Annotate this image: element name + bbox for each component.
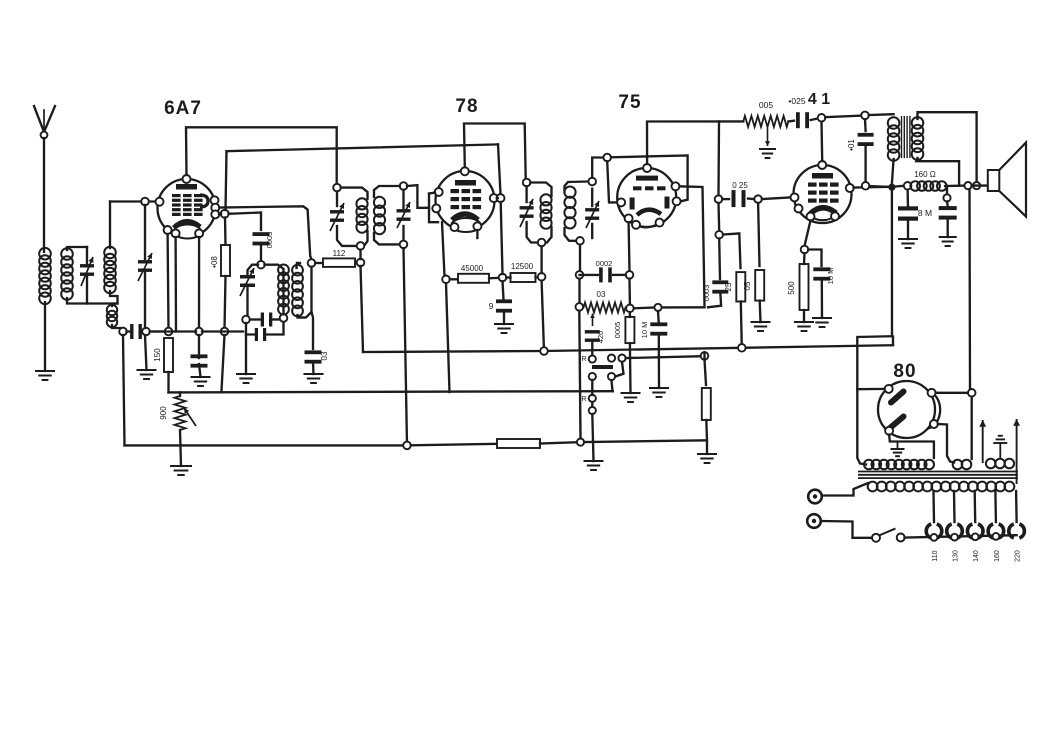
capacitor 9 screen bypass xyxy=(496,299,512,303)
wire tap bus xyxy=(905,535,1017,537)
bus A screen-AVC xyxy=(363,345,893,352)
black dot plate node xyxy=(888,184,895,191)
wire divider to cap9 xyxy=(503,281,504,299)
node switch P3 xyxy=(608,373,615,380)
svg-text:12500: 12500 xyxy=(511,262,534,271)
svg-text:0003: 0003 xyxy=(265,232,274,249)
pin 75 top-cap xyxy=(643,164,651,172)
wire to OPT primary xyxy=(869,113,894,116)
wire switch elbow xyxy=(615,362,623,377)
wire 01 top lead xyxy=(864,119,867,131)
coil L7 IF1 secondary xyxy=(374,197,385,208)
wire osc junction down to AVC bus xyxy=(221,335,224,392)
wire cath junction right xyxy=(808,250,821,267)
pin 6A7 heater1 xyxy=(172,229,180,237)
coil L10 OPT primary xyxy=(888,117,900,129)
resistor -08 osc anode xyxy=(221,245,230,276)
node IF2 secondary bottom xyxy=(576,237,584,245)
wire OPT sec bottom xyxy=(916,158,959,186)
wire 0005 to ground xyxy=(629,343,632,393)
pin 75 diode1 xyxy=(625,214,633,222)
svg-text:0003: 0003 xyxy=(702,285,711,302)
wire 41 cathode drop xyxy=(805,221,811,247)
node IF2 secondary top xyxy=(588,178,596,186)
wire 900 to ground xyxy=(180,430,181,466)
node IF1 primary top xyxy=(333,184,341,192)
svg-text:05: 05 xyxy=(743,281,752,290)
node speaker join 2 xyxy=(973,182,980,189)
terminal mains 1 xyxy=(808,490,822,504)
wire pickup bottom to cap xyxy=(312,312,314,349)
coil L4 oscillator xyxy=(278,265,289,276)
node ant-osc junction xyxy=(119,328,127,336)
ground antenna xyxy=(35,370,55,372)
wire osc tank box xyxy=(248,265,259,276)
resistor 112 coupling xyxy=(323,258,355,267)
bus C ground return xyxy=(125,444,405,446)
coil L12 field 1600 xyxy=(910,181,920,191)
wire trimmer2 down to ground xyxy=(144,271,146,328)
heater arc 41 xyxy=(811,216,836,220)
wire 25 to bus A xyxy=(741,302,742,348)
coil L11 OPT secondary xyxy=(912,117,924,129)
bus C right3 xyxy=(584,440,707,442)
node IF1 secondary top xyxy=(400,182,408,190)
wire IF1 sec to 78 grid xyxy=(407,185,429,208)
tube 75 envelope xyxy=(617,168,676,227)
node 0003 junction xyxy=(715,231,723,239)
wire 6A7 osc anode to pickup xyxy=(220,206,312,259)
ground heater ct xyxy=(999,443,1001,458)
capacitor osc tracking xyxy=(255,328,258,341)
tube 78 internals xyxy=(455,180,476,186)
wire 05 top lead xyxy=(758,203,759,266)
pin 6A7 top-cap xyxy=(183,175,191,183)
wire IF1 secondary box xyxy=(374,186,400,197)
pin 78 cath1 xyxy=(451,223,459,231)
node speaker join 1 xyxy=(964,182,971,189)
wire R stack xyxy=(591,380,593,395)
svg-text:R: R xyxy=(581,356,586,363)
tube 80 lens xyxy=(928,391,940,429)
tube 6A7 envelope xyxy=(158,179,216,237)
svg-text:9: 9 xyxy=(489,301,494,311)
wire 10M bottom lead xyxy=(199,364,201,377)
node switch R1 xyxy=(589,355,596,362)
node bus A x705 xyxy=(701,352,709,360)
svg-text:130: 130 xyxy=(953,550,960,562)
svg-text:4 1: 4 1 xyxy=(808,91,830,108)
wire wiper cap to switch xyxy=(591,341,593,355)
capacitor 10M detector xyxy=(650,322,667,326)
wire pickup to ground xyxy=(592,414,593,461)
wire det cap left lead xyxy=(580,274,599,276)
wire screen dropper vert xyxy=(498,144,501,194)
wire bus A end jog xyxy=(892,337,894,345)
tap selector 130 xyxy=(947,524,952,538)
arrow trimmer grid xyxy=(138,253,152,281)
capacitor 0003 osc grid xyxy=(253,232,270,236)
antenna xyxy=(34,106,44,132)
resistor 500 cathode xyxy=(800,264,809,310)
arrow heater lead 1 xyxy=(982,420,984,463)
ground 8M xyxy=(898,238,918,240)
wire grid bus right xyxy=(611,155,688,201)
coil L5 osc pickup xyxy=(292,265,303,276)
wire joins to speaker xyxy=(972,184,989,186)
node osc junction xyxy=(221,328,229,336)
wire 900 top lead xyxy=(179,392,181,396)
svg-text:112: 112 xyxy=(333,249,346,258)
pin 6A7 cathode xyxy=(164,226,172,234)
resistor 05 grid 41 xyxy=(755,270,764,301)
wire cathode row a xyxy=(152,330,196,332)
wire OPT sec top loop xyxy=(918,112,977,182)
arrow trimmer IF1 pri xyxy=(330,203,344,231)
wire plate pin link xyxy=(496,197,499,199)
wire 8M top lead xyxy=(906,190,909,207)
resistor 900 bias xyxy=(175,396,186,430)
node IF1 secondary bottom xyxy=(400,241,408,249)
wire grid drop to 75 xyxy=(607,161,617,202)
ground 0005 xyxy=(621,392,641,394)
ground 03 xyxy=(304,373,324,375)
node IF1 primary bottom xyxy=(357,242,365,250)
svg-text:220: 220 xyxy=(1015,550,1022,562)
wire cap9 to ground xyxy=(503,311,505,324)
coil L9 IF2 secondary xyxy=(564,187,575,198)
arrow hum tap xyxy=(767,128,769,146)
bus B AVC xyxy=(169,391,613,392)
svg-text:140: 140 xyxy=(973,550,980,562)
tube 41 internals xyxy=(812,173,833,179)
wire IF2 primary box xyxy=(525,186,527,202)
wire coupling vert lower xyxy=(717,203,720,231)
node volume top left xyxy=(576,303,584,311)
wire junction to cathode row xyxy=(150,330,166,332)
wire heater2 drop xyxy=(198,237,200,329)
trimmer capacitor IF2 pri xyxy=(520,206,534,209)
node coupling left xyxy=(715,195,723,203)
wire osc tank ground lead xyxy=(245,335,247,375)
coil L8 IF2 primary xyxy=(540,194,551,205)
ground filter2 xyxy=(939,236,957,238)
wire 10M41 to ground xyxy=(821,279,824,318)
wire junction down to bus xyxy=(123,335,125,445)
wire 0005 top lead xyxy=(629,312,631,317)
tap selector 160 xyxy=(988,524,993,538)
node osc coil bottom xyxy=(280,314,288,322)
trimmer capacitor IF1 pri xyxy=(330,210,344,213)
wire 0003b top lead xyxy=(718,239,721,280)
wire padder to coil xyxy=(272,318,284,320)
resistor 25 grid leak xyxy=(736,272,745,301)
wire cathode row b xyxy=(202,330,243,332)
resistor 005 hum xyxy=(743,116,788,127)
wire P3 to AVC bus xyxy=(612,380,613,391)
ground plate load xyxy=(697,453,717,455)
coil L6 IF1 primary xyxy=(356,198,367,209)
trimmer capacitor first detector grid xyxy=(138,260,152,263)
wire det junction drop xyxy=(578,279,580,303)
speaker xyxy=(988,170,1000,191)
wire IF2 pri bottom drop xyxy=(540,246,542,273)
trimmer capacitor oscillator xyxy=(240,275,255,279)
switch mains xyxy=(872,534,880,542)
capacitor 01 tone xyxy=(858,133,874,137)
capacitor 10M 41 bypass xyxy=(813,267,830,271)
ground 05 xyxy=(751,321,771,323)
wire 03 to ground xyxy=(312,362,315,374)
coil L3 secondary xyxy=(104,247,116,259)
svg-text:900: 900 xyxy=(159,406,168,420)
wire cap left lead xyxy=(127,330,131,332)
wire 41 top junction right xyxy=(825,116,861,118)
wire 78 top cap to IF2 xyxy=(464,124,526,180)
wire join1 down xyxy=(968,189,971,389)
capacitor 10M cathode bypass xyxy=(191,354,208,358)
wire 80 plate2 path xyxy=(889,435,934,458)
wire 10M det top lead xyxy=(657,311,660,324)
wire antenna coil to ground xyxy=(44,302,46,371)
ground 10M41 xyxy=(812,317,832,319)
node pickup R2b xyxy=(589,407,596,414)
wire osc grid to cap xyxy=(229,213,262,231)
wire 45000 right lead xyxy=(489,277,499,280)
node IF2 primary top xyxy=(523,179,531,187)
coil L1 antenna xyxy=(39,248,51,260)
svg-text:R: R xyxy=(581,396,586,403)
pin 75 heater1 xyxy=(632,221,640,229)
pin 41 grid-left xyxy=(791,193,799,201)
capacitor 03 osc bypass xyxy=(305,350,322,354)
node osc tank bl xyxy=(242,316,250,324)
arrow trimmer IF1 sec xyxy=(397,202,410,228)
heater arc 75 xyxy=(636,223,660,228)
capacitor 0003 af xyxy=(712,280,728,284)
svg-text:0005: 0005 xyxy=(613,322,622,339)
wire OPT core xyxy=(901,116,903,158)
wire det cap right lead xyxy=(613,274,626,276)
arrow trimmer antenna xyxy=(81,257,93,286)
wire 500 to ground xyxy=(803,310,805,322)
wire antenna lead xyxy=(43,138,45,252)
wire tap 220 lead xyxy=(1015,491,1018,522)
pin 78 top-cap xyxy=(461,167,469,175)
wire volume left long drop xyxy=(579,311,580,439)
wire filter2 bottom lead xyxy=(947,219,949,237)
wire IF2 secondary box xyxy=(565,182,593,193)
coil L16 mains primary xyxy=(868,482,878,492)
svg-text:03: 03 xyxy=(320,351,329,360)
wire 150 to AVC bus xyxy=(167,372,169,392)
node 01 bottom xyxy=(862,182,870,190)
wire 75 plate resistor vert xyxy=(705,360,707,386)
svg-text:8 M: 8 M xyxy=(918,208,932,218)
node 10M top xyxy=(654,304,661,311)
wire 0003 to tank top xyxy=(260,244,262,261)
svg-text:005: 005 xyxy=(759,100,773,110)
coil L14 80 filament winding xyxy=(953,460,963,470)
node switch P1 xyxy=(608,355,615,362)
wire OPT primary bottom xyxy=(892,159,894,184)
wire 6A7 screen sloped xyxy=(227,144,499,151)
wire field to join xyxy=(945,184,964,187)
wire 05 to ground xyxy=(759,301,762,322)
wire 78 cath2 stub xyxy=(476,230,478,238)
wire junction to winding xyxy=(971,397,973,459)
pin 78 grid-left xyxy=(435,188,443,196)
svg-text:45000: 45000 xyxy=(461,264,484,273)
wire 005 to cap xyxy=(788,120,794,123)
wire 8M bottom lead xyxy=(907,220,909,239)
tube 41 envelope xyxy=(794,165,852,223)
ground HV ct xyxy=(897,442,899,450)
coil L2 primary xyxy=(61,248,73,260)
terminal mains 2 xyxy=(807,514,821,528)
pin 6A7 anode1 xyxy=(211,196,219,204)
wire 78 grid bracket xyxy=(429,194,438,223)
wire trimmer top lead xyxy=(86,247,88,265)
pin 41 left2 xyxy=(795,205,803,213)
wire pickup to 112 xyxy=(315,262,323,264)
wire 12500 right lead xyxy=(536,276,542,279)
svg-text:0002: 0002 xyxy=(596,259,613,268)
wire tank lower cap left xyxy=(246,323,255,335)
node pickup R2a xyxy=(589,395,596,402)
svg-text:25: 25 xyxy=(724,282,733,291)
wire cap 025 right lead xyxy=(748,197,754,200)
wire 45000 junction down to bus xyxy=(446,283,450,392)
wire tank bottom xyxy=(250,318,261,320)
ground osc tank xyxy=(236,373,256,375)
wire trimmer2 top lead xyxy=(144,205,146,259)
pin 80 fil2 xyxy=(930,420,938,428)
node 12500 right xyxy=(538,273,546,281)
trimmer capacitor IF2 sec xyxy=(585,208,599,211)
svg-text:6A7: 6A7 xyxy=(164,98,202,119)
ground trimmer2 xyxy=(137,369,157,371)
resistor bus C xyxy=(497,439,540,448)
node bus C x580 xyxy=(577,439,584,446)
wire coupling vert xyxy=(717,121,720,195)
arrow volume wiper xyxy=(592,314,594,327)
node 41 grid cap top xyxy=(818,114,826,122)
bus C right xyxy=(411,444,497,446)
wire 025 to 41 grid xyxy=(762,197,791,199)
wire osc pickup box xyxy=(301,267,312,318)
wire plate line segment xyxy=(869,185,888,188)
node volume top right xyxy=(626,305,634,313)
pin 75 heater2 xyxy=(656,219,664,227)
node cathode junction xyxy=(165,328,173,336)
svg-text:160: 160 xyxy=(994,550,1001,562)
tap selector 140 xyxy=(967,524,972,538)
wire L2 top xyxy=(67,247,87,250)
capacitor 025 coupling xyxy=(732,190,736,207)
svg-text:78: 78 xyxy=(455,96,478,117)
svg-text:03: 03 xyxy=(597,290,606,299)
wire 80 fil2 right xyxy=(938,424,954,463)
svg-text:80: 80 xyxy=(893,361,916,382)
pin 6A7 grid-osc xyxy=(211,210,219,218)
node 45000 left xyxy=(442,276,450,284)
trimmer capacitor IF1 sec xyxy=(397,209,411,212)
wire 10M top lead xyxy=(198,335,200,358)
node osc pickup top xyxy=(308,259,316,267)
svg-text:•025: •025 xyxy=(788,96,805,106)
wire R2 stub xyxy=(591,402,593,407)
svg-text:10 M: 10 M xyxy=(826,268,835,285)
wire 80 fil1 right xyxy=(936,392,968,394)
arrow heater lead 2 xyxy=(1016,419,1018,484)
tube 75 internals xyxy=(636,176,658,181)
wire 41 plate right xyxy=(854,186,888,189)
wire osc anode down xyxy=(224,218,227,246)
node 80 filament junction xyxy=(968,389,976,397)
node 41 cathode junction xyxy=(801,246,809,254)
node bus C x407 xyxy=(403,442,411,450)
node IF2 primary bottom xyxy=(538,239,546,247)
wire IF2 vert to bus A xyxy=(542,281,544,351)
node switch P2 xyxy=(618,355,625,362)
wire switch bus join xyxy=(703,352,705,359)
wire volume right to plate vert xyxy=(634,306,658,309)
wire 01 bottom lead xyxy=(864,145,866,182)
wire mains left hook xyxy=(822,483,868,496)
pin 41 top-cap xyxy=(818,161,826,169)
heater oval 6A7 xyxy=(174,225,201,239)
ground pickup xyxy=(584,460,604,462)
wire cap to 41 junction xyxy=(811,119,818,121)
pin 78 cath2 xyxy=(473,222,481,230)
wire 10M det to ground xyxy=(658,335,661,389)
pin 78 suppressor xyxy=(432,204,440,212)
coil L13 HV winding xyxy=(864,460,874,470)
arrow trimmer IF2 sec xyxy=(586,201,599,228)
wire screen vert lower xyxy=(501,202,503,274)
pin 41 cathode xyxy=(807,213,815,221)
wire dot to 8M node xyxy=(896,185,904,188)
pin 78 plate ext xyxy=(497,194,505,202)
tube 6A7 internals xyxy=(176,184,197,190)
node bus A x544 xyxy=(540,347,548,355)
wire IF1 pri bottom drop xyxy=(359,250,361,259)
wire IF2 sec top to grid bus xyxy=(592,158,603,178)
node grid trimmer tap xyxy=(141,198,149,206)
wire trimmer bottom lead xyxy=(86,275,88,304)
ground cap9 xyxy=(494,323,514,325)
pin 80 plate1 xyxy=(885,385,893,393)
wire 75 top cap up xyxy=(647,121,743,164)
ground 500 xyxy=(794,321,814,323)
wire osc grid ext xyxy=(219,213,221,215)
pin 80 plate2 xyxy=(885,427,893,435)
svg-text:110: 110 xyxy=(932,550,939,561)
coil L15 heater winding xyxy=(986,459,996,469)
capacitor osc padder xyxy=(261,313,264,327)
pin 6A7 anode2 xyxy=(211,204,219,212)
arrow 900 tap xyxy=(184,408,196,426)
trimmer capacitor antenna xyxy=(80,264,94,267)
resistor 03 volume xyxy=(584,303,626,313)
wire jog to small coil xyxy=(112,304,118,307)
wire 500 top lead xyxy=(803,253,806,264)
wire L3 top lead xyxy=(109,202,111,249)
pin 6A7 osc-anode ext xyxy=(221,210,229,218)
wire tap 130 lead xyxy=(953,491,956,522)
node tap 140 xyxy=(972,533,979,540)
